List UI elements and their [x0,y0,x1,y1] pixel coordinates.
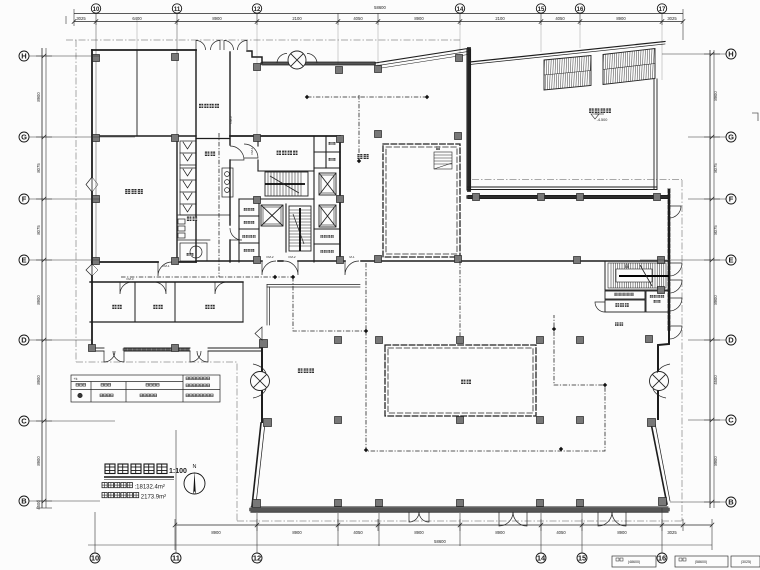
right leaders [662,53,726,55]
lower-left exterior wall y347-351 with ticks [90,347,104,349]
corridor wall x196 [195,50,197,262]
bottom curtain wall y506-513 [251,506,668,508]
label cs [205,152,210,157]
label dt2 [357,154,362,159]
void corners [375,131,382,138]
void mezzanine dashed rect [383,144,460,257]
label zb3 [205,305,209,309]
bottom grid bubbles [90,553,667,563]
upper machine cells right column x314-340 [314,151,340,153]
label zb1 [112,305,116,309]
top dimension line [74,13,683,15]
hall columns row y503 [335,500,342,507]
stair S3 (right, to basement) [605,261,669,290]
hall left wall [261,343,263,372]
label mqbj1 [320,235,323,238]
label bdz [125,189,130,194]
label s_up2 [625,265,628,268]
level triangle [591,114,604,119]
corridor L handrail [267,284,360,286]
plaza bottom wall y188 [468,186,657,188]
small door labels (latin) [127,116,355,281]
toilet stall bank [178,141,233,261]
label gj [654,300,657,303]
plaza right wall x655 [653,79,655,189]
core top wall y136 [230,135,340,137]
label gjj [615,303,619,307]
hall top wall door y261 [345,261,359,275]
core columns [254,64,261,71]
hall top wall y261 [361,260,668,262]
label sk1 [461,380,465,384]
top curtain columns [336,67,343,74]
label ktjf [277,151,281,155]
label rdj [244,221,247,224]
left dimension lines [41,48,43,508]
bottom extension lines [94,512,96,553]
round column top entrance [277,51,317,69]
building wall y197 with ticks [468,195,668,197]
label pf [329,142,332,145]
elevator E2 [319,205,336,227]
label ck [615,322,619,326]
left leaders to building [29,55,100,57]
north compass [184,464,205,494]
door on x230 upper [230,146,244,160]
interior partition x137 [136,50,138,135]
left cells [238,199,240,262]
bottom wall doors [409,512,419,522]
title block: 一层平面图 as glyph blocks [104,464,187,480]
room partitions lower-left [134,282,136,322]
shower room [180,243,207,261]
right wall jog [658,331,669,372]
urinal cells right of corridor [222,168,233,197]
空调机房 walls [239,136,340,262]
canopy stair band left segment [544,56,591,91]
top curtain wall y62-65 [262,61,375,63]
bottom dimension lines [175,524,712,526]
label xcgc [589,108,594,113]
sinks [178,219,185,224]
stair3 room door [595,302,605,312]
label zb2 [153,305,157,309]
round column hall right [650,364,671,398]
door on x230 lower [230,228,242,240]
left exterior wall [91,50,93,177]
site boundary left [75,40,77,362]
door upper-left wall wedges [86,177,92,192]
vertical grid extension lines [95,20,97,265]
main entrance double doors top [196,41,206,51]
right wall doors [669,206,681,218]
plaza wall columns [473,194,480,201]
wall x230 [229,52,231,145]
top grid bubbles [91,4,666,13]
label mqbj2 [320,250,323,253]
right wall columns [574,257,581,264]
lower-left block top wall y282 [90,281,243,283]
stair3 block outline [605,261,669,312]
core bottom wall y261 [196,260,262,262]
canopy right slant [470,42,665,63]
bottom right boxed labels [612,556,760,567]
label gzj [244,249,247,252]
top dim ticks [96,13,662,25]
site boundary top-right horizontal [472,179,682,181]
stair S2 (core, vertical run) [289,206,311,251]
canopy left slant [375,49,468,64]
left grid bubbles [19,51,29,506]
canopy stair band right segment [603,49,655,85]
top dim labels [76,5,677,21]
area lines: cjk blocks + latin numbers [102,483,165,491]
elevator E1 [319,173,336,195]
hall void dashed rect [385,345,536,416]
upper-left block columns [93,55,100,62]
label dt1 [187,217,192,222]
site boundary step bottom-left [76,362,237,521]
room 变电站 right wall [176,139,178,262]
right grid bubbles [726,49,736,507]
值班 room doors y282 [120,282,132,294]
label mqyr [650,295,653,298]
lobby route [307,96,427,98]
top wall of upper-left block [92,49,196,51]
label sht [298,368,303,373]
evacuation route corridor [218,133,220,277]
lower-left exterior doors y351 [104,351,115,362]
label liny [187,253,190,256]
label bazb [199,104,203,108]
interior wall y136 upper-left [92,135,196,137]
hall columns row y340 [335,337,342,344]
door 盥洗 y262 [158,262,172,276]
label s_up1 [436,146,440,150]
round column hall left [251,364,270,398]
label sf [329,158,332,161]
right wall x669 upper [668,190,670,331]
small stair S4 (void mezzanine) [434,152,452,169]
top wall segment right of entrance doors [247,51,262,63]
elevator E3 [261,205,283,226]
site boundary dash-dot top [66,39,460,41]
label qdj [244,208,247,211]
bottom wall of upper-left block y262 [92,261,158,263]
legend table [71,375,220,402]
left rotated dim labels [36,92,41,510]
canopy columns [456,55,463,62]
right dimension lines [709,50,711,508]
right wall slant [651,423,667,504]
door to 空调机房 [244,144,258,158]
site boundary right [681,180,683,521]
label pyjf [242,235,245,238]
doors on core bottom wall y261 [262,261,276,275]
mid wall y199 [239,198,314,200]
hall columns row y420 [335,417,342,424]
core right wall x340 [339,136,341,261]
label xfzbs [614,293,617,296]
corridor end door wedge [255,327,262,340]
stair S1 (core, horizontal double run) [265,172,308,196]
plaza left wall x468 [466,49,468,190]
lower-left block columns [89,345,96,352]
site boundary bottom [237,520,682,522]
hall inner dashed void edge links [459,261,461,336]
bottom dim labels [211,530,677,544]
